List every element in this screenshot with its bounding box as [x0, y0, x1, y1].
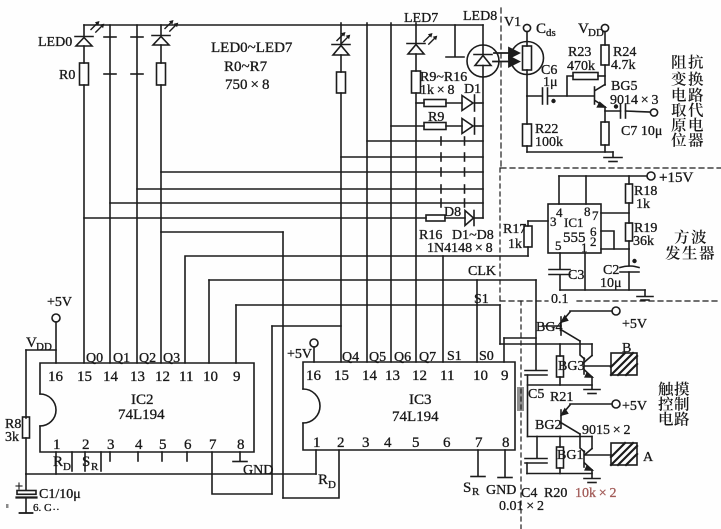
svg-text:V1: V1 — [504, 15, 521, 30]
resistor row1 — [424, 100, 446, 107]
resistor R22 — [523, 96, 564, 152]
wire touch plate A — [585, 454, 611, 456]
svg-text:15: 15 — [77, 369, 92, 385]
ground B cell — [584, 377, 600, 394]
resistor R0 — [59, 63, 89, 85]
scan noise bottom left — [6, 501, 60, 514]
touch plate B — [611, 341, 637, 375]
wire 555 pin7 — [601, 212, 629, 214]
svg-text:7: 7 — [209, 437, 217, 453]
wire row6 — [137, 185, 483, 193]
LED3 emission arrows — [165, 20, 178, 31]
wire IC3 pin11 — [442, 256, 444, 362]
wire Q0 column — [83, 85, 85, 363]
wire LED6 column — [390, 23, 392, 362]
svg-text:R0: R0 — [59, 68, 75, 83]
svg-text:S: S — [463, 480, 471, 496]
label C4 R20 — [521, 486, 617, 501]
wire row7 — [110, 199, 483, 207]
svg-text:1k: 1k — [508, 237, 522, 252]
wire row3 — [367, 137, 483, 145]
svg-text:C7 10μ: C7 10μ — [621, 124, 662, 139]
svg-text:ds: ds — [546, 27, 556, 39]
svg-text:5: 5 — [159, 437, 167, 453]
label block2 chinese — [665, 229, 714, 260]
wire Q3 to IC3 SR — [161, 231, 283, 233]
wire row2 — [391, 125, 424, 127]
svg-text:BG4: BG4 — [536, 320, 562, 335]
svg-text:BG1: BG1 — [557, 448, 583, 463]
svg-text:750 × 8: 750 × 8 — [225, 77, 269, 93]
wire 555 pin3 — [528, 220, 548, 222]
diode D2 — [462, 118, 483, 134]
svg-text:1k × 8: 1k × 8 — [420, 83, 455, 98]
wire IC3 pin1 RD — [316, 450, 336, 491]
svg-text:1: 1 — [313, 435, 321, 451]
svg-text:11: 11 — [179, 369, 193, 385]
dashed touch separator — [520, 301, 522, 529]
wire BG1 collector — [591, 437, 593, 449]
svg-text:IC2: IC2 — [131, 392, 154, 408]
svg-text:Q5: Q5 — [369, 350, 386, 365]
svg-text:Q7: Q7 — [419, 350, 436, 365]
svg-text:1μ: 1μ — [543, 75, 558, 90]
terminal C7 output — [650, 109, 657, 116]
svg-text:74L194: 74L194 — [392, 409, 439, 425]
resistor R4 — [337, 72, 346, 93]
svg-text:555: 555 — [563, 230, 586, 246]
terminal VDD — [578, 21, 609, 39]
wire IC2 pin7 link — [271, 326, 273, 494]
LED LED0 — [38, 25, 93, 63]
svg-text:9: 9 — [501, 368, 509, 384]
capacitor C5 — [525, 371, 547, 437]
label Q0-Q3 — [86, 351, 180, 366]
resistor R21 — [550, 344, 573, 405]
wire IC3 pin10 — [476, 280, 478, 362]
svg-text:A: A — [643, 450, 654, 465]
resistor R18 — [626, 176, 658, 223]
svg-text:11: 11 — [440, 368, 454, 384]
LED LED4 — [332, 23, 350, 72]
svg-text:2: 2 — [590, 234, 597, 249]
wire IC3 pin2 — [283, 450, 339, 498]
IC2 pin stubs 3-6 — [110, 452, 187, 461]
svg-text:3: 3 — [362, 435, 370, 451]
svg-text:S1: S1 — [447, 349, 462, 364]
svg-text:16: 16 — [48, 369, 64, 385]
svg-text:BG2: BG2 — [535, 418, 561, 433]
svg-text:9: 9 — [233, 369, 241, 385]
svg-text:470k: 470k — [567, 59, 595, 74]
wire S0 row — [235, 305, 237, 363]
wire S1 row — [208, 280, 210, 363]
svg-text:IC3: IC3 — [409, 392, 432, 408]
svg-text:Q6: Q6 — [394, 350, 411, 365]
dashed optocoupler separator — [500, 8, 502, 168]
wire drive A cell — [528, 436, 593, 438]
wire IC3 pin9 — [503, 338, 505, 362]
resistor R19 — [626, 221, 658, 249]
svg-text:12: 12 — [155, 369, 170, 385]
wire BG4 collector — [580, 341, 585, 359]
wire IC3 pin9 horizontal — [504, 337, 536, 339]
svg-text:Q2: Q2 — [139, 351, 156, 366]
wire 555 pin8 — [585, 176, 587, 204]
IC IC1 555 — [548, 204, 601, 255]
LED LED8 — [463, 9, 499, 77]
svg-text:1: 1 — [53, 437, 61, 453]
svg-text:100k: 100k — [535, 135, 563, 150]
svg-text:10k × 2: 10k × 2 — [575, 486, 617, 501]
svg-text:+5V: +5V — [622, 399, 647, 414]
svg-text:7: 7 — [475, 435, 483, 451]
resistor R7 — [412, 71, 421, 93]
dashed box 555 top — [501, 167, 721, 169]
svg-text:14: 14 — [362, 368, 378, 384]
svg-text:Q1: Q1 — [113, 351, 130, 366]
svg-text:R21: R21 — [550, 390, 573, 405]
wire row4 — [341, 153, 483, 161]
wire row1 — [446, 102, 462, 104]
svg-text:13: 13 — [130, 369, 145, 385]
label SR IC2 — [82, 452, 101, 473]
wire S0 into BG cell — [500, 343, 592, 345]
svg-text:S: S — [82, 454, 90, 470]
ground IC2 pin8 — [233, 452, 273, 478]
wire +15V rail — [559, 175, 647, 177]
wire amp ground rail — [527, 151, 613, 153]
svg-text:R: R — [472, 486, 480, 498]
svg-text:+15V: +15V — [659, 170, 693, 186]
IC IC3 74L194 — [303, 362, 515, 451]
svg-text:C1/10μ: C1/10μ — [39, 487, 81, 502]
wire CLK row — [185, 256, 528, 363]
terminal +5V IC3 — [287, 339, 318, 362]
wire Q4 column — [340, 93, 342, 362]
wire RD rail — [26, 473, 316, 475]
svg-text:8: 8 — [237, 437, 245, 453]
svg-text:C3: C3 — [568, 268, 584, 283]
svg-text:10: 10 — [203, 369, 218, 385]
LED0 emission arrows — [91, 21, 104, 32]
scan smudge artifact — [517, 387, 524, 411]
resistor BG5 emitter — [601, 107, 609, 152]
svg-text:2: 2 — [337, 435, 345, 451]
svg-text:DD: DD — [588, 27, 604, 39]
wire 555 pin1 — [584, 253, 586, 290]
ground 555 — [637, 290, 653, 300]
svg-text:LED0: LED0 — [38, 35, 72, 50]
svg-text:4: 4 — [556, 205, 563, 220]
transistor BG4 — [536, 312, 580, 341]
svg-text:LED0~LED7: LED0~LED7 — [211, 40, 293, 56]
LED8 coupling arrows — [493, 48, 519, 67]
terminal +5V B cell — [612, 307, 647, 332]
wire 555 ground rail — [560, 289, 645, 291]
svg-text:36k: 36k — [633, 234, 654, 249]
wire S0 drop — [499, 305, 501, 344]
terminal Cds — [523, 21, 555, 39]
ground amp — [604, 152, 622, 162]
svg-text:R17: R17 — [503, 222, 526, 237]
terminal +15V — [647, 170, 693, 186]
svg-text:9015 × 2: 9015 × 2 — [582, 423, 631, 438]
wire +5V A rail — [570, 403, 612, 405]
svg-text:4: 4 — [135, 437, 143, 453]
svg-text:R23: R23 — [568, 45, 591, 60]
wire top ground bus — [84, 24, 483, 26]
svg-text:Q3: Q3 — [163, 351, 180, 366]
resistor R3 — [157, 63, 166, 85]
svg-text:6: 6 — [443, 435, 451, 451]
wire B cell bottom — [528, 384, 593, 386]
capacitor C1 — [16, 474, 81, 513]
wire 555 pin6 — [601, 231, 614, 249]
wire R8 top — [25, 350, 27, 418]
capacitor C6 — [527, 63, 594, 104]
terminal SR IC3 — [463, 450, 485, 498]
svg-text:Q4: Q4 — [342, 350, 359, 365]
wire Q7 column — [415, 93, 417, 362]
svg-text:16: 16 — [306, 368, 322, 384]
wire row8 — [84, 217, 426, 219]
svg-text:5: 5 — [555, 238, 562, 253]
svg-text:12: 12 — [412, 368, 427, 384]
transistor BG2 — [535, 405, 580, 434]
transistor BG5 — [595, 79, 659, 108]
svg-text:R: R — [91, 461, 99, 473]
wire IC3 SR column — [282, 232, 284, 498]
svg-text:LED8: LED8 — [463, 9, 497, 24]
label RD IC2 — [53, 452, 72, 474]
svg-text:8: 8 — [502, 435, 510, 451]
wire +5V B rail — [570, 310, 612, 312]
diode D8 — [444, 205, 483, 226]
svg-text:D8: D8 — [444, 205, 461, 220]
label block3 chinese — [658, 382, 689, 426]
resistor R23 — [567, 45, 605, 96]
svg-text:+5V: +5V — [47, 295, 72, 310]
svg-text:+5V: +5V — [287, 347, 312, 362]
dashed box 555 left — [499, 168, 501, 301]
label R9~R16 1k×8 — [420, 70, 467, 98]
capacitor C3 — [549, 253, 584, 307]
svg-text:B: B — [622, 341, 631, 356]
touch plate A — [611, 443, 654, 465]
wire row2b — [446, 125, 462, 127]
wire IC2 pin7 — [212, 452, 272, 494]
svg-text:IC1: IC1 — [564, 215, 584, 230]
resistor R24 — [601, 32, 636, 85]
label R16 D1~D8 — [419, 228, 494, 243]
svg-text:R20: R20 — [544, 486, 567, 501]
capacitor C4 — [525, 437, 547, 474]
wire 555 pin2 — [601, 248, 629, 250]
resistor R17 — [503, 221, 532, 256]
svg-text:...: ... — [49, 501, 60, 513]
svg-text:3: 3 — [550, 214, 557, 229]
svg-text:D: D — [328, 479, 336, 491]
LED4 emission arrows — [337, 32, 350, 43]
svg-text:CLK: CLK — [468, 264, 496, 279]
wire BG3 collector — [591, 344, 593, 356]
node VDD IC2 — [26, 335, 56, 353]
label Q4-S0 — [342, 349, 494, 365]
capacitor C2 — [600, 249, 639, 291]
wire Q3 column — [160, 85, 162, 363]
dashed box 555 bottom — [500, 300, 721, 302]
wire A cell bottom — [527, 473, 592, 475]
LED LED3 — [152, 25, 170, 63]
svg-text:R: R — [53, 454, 63, 470]
ground A cell — [584, 470, 600, 483]
svg-text:DD: DD — [36, 341, 52, 353]
svg-text:LED7: LED7 — [404, 11, 438, 26]
IC IC2 74L194 — [40, 363, 254, 453]
wire S1 drop C5 — [535, 280, 537, 370]
diode D1 — [462, 82, 483, 111]
svg-text:C5: C5 — [528, 387, 544, 402]
wire LED5 column — [366, 23, 368, 362]
svg-text:14: 14 — [103, 369, 119, 385]
svg-text:BG5: BG5 — [611, 79, 637, 94]
svg-text:6: 6 — [184, 437, 192, 453]
wire BG2 collector — [580, 434, 585, 452]
svg-text:10μ: 10μ — [600, 276, 622, 291]
svg-text:GND: GND — [486, 483, 516, 498]
wire S1 row horizontal — [209, 280, 536, 307]
svg-text:D1: D1 — [464, 82, 481, 97]
svg-text:1k: 1k — [636, 197, 650, 212]
svg-text:S0: S0 — [479, 349, 494, 364]
svg-text:74L194: 74L194 — [118, 407, 165, 423]
svg-text:4.7k: 4.7k — [611, 58, 636, 73]
svg-text:2: 2 — [82, 437, 90, 453]
svg-text:D: D — [63, 461, 71, 473]
label block1 chinese — [671, 55, 703, 147]
wire LED2 column (abbreviated) — [131, 25, 143, 363]
svg-text:15: 15 — [334, 368, 349, 384]
svg-text:4: 4 — [384, 435, 392, 451]
terminal GND IC3 — [486, 450, 516, 498]
transistor BG1 — [557, 448, 592, 470]
capacitor C7 — [605, 104, 662, 139]
resistor R8 — [5, 417, 30, 474]
ground top bus — [446, 25, 464, 57]
resistor row2 R9 — [424, 123, 446, 130]
terminal +5V IC2 — [47, 295, 72, 363]
svg-text:BG3: BG3 — [558, 359, 584, 374]
svg-text:1N4148 × 8: 1N4148 × 8 — [427, 241, 493, 256]
wire row5 — [161, 168, 483, 176]
IC3 pin stubs 3-6 — [0, 0, 1, 1]
svg-text:GND: GND — [243, 463, 273, 478]
photoresistor V1 — [511, 32, 544, 96]
resistor row8 — [426, 215, 465, 221]
LED7 emission arrows — [424, 33, 437, 44]
svg-text:13: 13 — [385, 368, 400, 384]
resistor R20 — [557, 437, 564, 474]
transistor BG3 — [558, 356, 592, 378]
svg-text:3: 3 — [107, 437, 115, 453]
svg-text:Q0: Q0 — [86, 351, 103, 366]
LED LED7 — [404, 11, 438, 71]
wire LED1 column (abbreviated) — [104, 25, 116, 363]
svg-text:10: 10 — [473, 368, 488, 384]
wire row326 — [272, 325, 341, 327]
wire diode cathode column — [482, 77, 484, 218]
terminal +5V A cell — [612, 399, 647, 414]
svg-text:3k: 3k — [5, 430, 19, 445]
svg-text:C: C — [536, 21, 546, 37]
svg-text:R0~R7: R0~R7 — [224, 59, 268, 75]
svg-text:8: 8 — [584, 204, 591, 219]
svg-text:+5V: +5V — [622, 317, 647, 332]
svg-text:R: R — [318, 472, 328, 488]
svg-text:5: 5 — [412, 435, 420, 451]
svg-text:7: 7 — [592, 208, 599, 223]
svg-text:0.1: 0.1 — [551, 292, 569, 307]
wire S0 row horizontal — [236, 304, 500, 306]
wire 555 pin4 — [558, 176, 560, 204]
diode row 1: wire — [416, 102, 424, 104]
wire touch plate B — [585, 365, 611, 367]
